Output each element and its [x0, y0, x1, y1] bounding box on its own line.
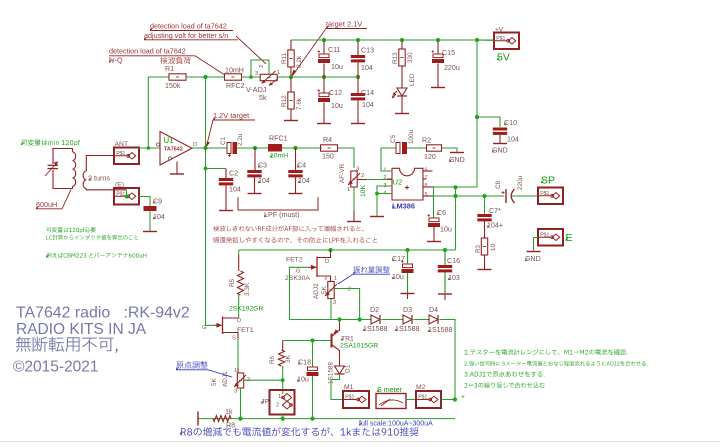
svg-text:600uH: 600uH [36, 200, 57, 209]
leader 600uH to coil [62, 190, 71, 209]
node junction C18 bottom [310, 417, 314, 421]
ground R3 [478, 269, 492, 271]
node junction C16 tap [443, 248, 447, 252]
svg-text:D1: D1 [345, 364, 352, 373]
ground C3 [248, 193, 262, 195]
svg-text:full scale:100uA~300uA: full scale:100uA~300uA [359, 421, 433, 428]
connector PJ1 E2 [538, 229, 563, 246]
title 無断転用不可 [16, 336, 118, 352]
wire pin8-pin5 bridge [433, 187, 435, 196]
wire C10 tap [477, 117, 500, 127]
svg-text:3: 3 [234, 389, 237, 395]
wire C12 to ground [323, 103, 325, 124]
svg-text:1k: 1k [225, 408, 233, 416]
resistor R8 [213, 416, 231, 422]
wire D3-D4 [414, 319, 430, 321]
wire R1 left [148, 76, 169, 78]
note 可変量は120pf必要 [46, 227, 95, 233]
svg-text:8: 8 [425, 183, 428, 189]
capacitor C3 [254, 148, 256, 170]
leader line to V-ADJ [236, 36, 266, 64]
svg-text:R11: R11 [281, 52, 288, 64]
svg-text:8.2k: 8.2k [296, 55, 303, 68]
wire AF-VR bottom to ground [353, 187, 355, 211]
svg-text:1: 1 [277, 70, 280, 76]
op-amp U2 LM386 [392, 168, 423, 200]
svg-text:RADIO KITS IN JA: RADIO KITS IN JA [16, 321, 147, 338]
wire R3 to ground [484, 255, 486, 269]
ground C12 [317, 123, 331, 125]
svg-text:1: 1 [347, 187, 350, 193]
wire C16 to ground [444, 273, 446, 294]
wire C9 to ground [149, 211, 151, 231]
ground bus left [197, 412, 199, 426]
note 検波しきれない line2 [213, 237, 377, 243]
svg-text:©2015-2021: ©2015-2021 [13, 359, 99, 376]
svg-text:O: O [193, 142, 197, 148]
svg-text:AF-VR: AF-VR [339, 163, 346, 183]
node junction ADJ1 bottom [238, 417, 242, 421]
inductor RFC1 [268, 144, 282, 152]
svg-text:D4: D4 [429, 306, 438, 314]
svg-text:3: 3 [324, 276, 327, 282]
svg-text:220u: 220u [517, 175, 524, 190]
svg-text:5V: 5V [497, 52, 510, 64]
svg-text:U2: U2 [393, 178, 403, 187]
svg-text:330: 330 [407, 52, 414, 63]
svg-text:1S1588: 1S1588 [395, 325, 420, 333]
svg-text:U1: U1 [164, 136, 174, 145]
svg-text:C9: C9 [153, 198, 162, 206]
note instruction 3 [464, 371, 544, 377]
node junction supply/zobel [453, 185, 457, 189]
svg-text:ADJ2: ADJ2 [313, 283, 320, 299]
wire E to C9 [139, 197, 151, 207]
wire C1 to RFC1 [237, 147, 268, 149]
wire C10 to ground [499, 135, 501, 143]
wire U1 output [192, 147, 206, 149]
capacitor C11 [323, 41, 325, 54]
LED LED1 [397, 88, 407, 96]
wire to +V connector [477, 39, 494, 42]
capacitor C16 [444, 250, 446, 265]
node junction C10 tap [475, 115, 479, 119]
node junction C7 tap [482, 194, 486, 198]
svg-text:3K: 3K [285, 354, 292, 363]
svg-text:C8: C8 [495, 180, 502, 189]
resistor R1 [169, 74, 186, 80]
wire RFC1 to R4 [282, 147, 322, 149]
svg-text:7.6k: 7.6k [296, 97, 303, 110]
svg-text:2: 2 [383, 175, 386, 181]
svg-text:adjusting volt for better s/n: adjusting volt for better s/n [144, 31, 228, 40]
svg-text:2: 2 [348, 287, 351, 293]
connector PJ1 SP [538, 188, 563, 205]
note instruction 2 [464, 361, 647, 366]
svg-text:3.3K: 3.3K [244, 282, 251, 296]
diode D1 [335, 366, 345, 374]
svg-text:C13: C13 [361, 47, 374, 55]
svg-text:150k: 150k [165, 82, 181, 90]
ground U2 input [370, 216, 384, 218]
svg-text:5: 5 [425, 192, 428, 198]
wire S meter to M2 [406, 399, 416, 401]
svg-text:+: + [461, 394, 465, 401]
svg-text:TA7642: TA7642 [164, 147, 183, 153]
ground LED [395, 113, 409, 115]
svg-text:G: G [202, 325, 207, 331]
capacitor C10 [493, 128, 507, 131]
node junction TR1 emitter [337, 317, 341, 321]
ground C4 [289, 193, 303, 195]
wire M2 to node [441, 399, 455, 401]
capacitor C1 [206, 147, 228, 149]
node junction V-ADJ/R11/R12 [289, 75, 293, 79]
wire meter supply rail [239, 249, 456, 251]
node junction M2 [453, 397, 457, 401]
svg-text:2SK30A: 2SK30A [285, 275, 310, 282]
ground AF-VR [347, 221, 361, 223]
wire C2 to ground [225, 186, 227, 211]
wire C3 to ground [254, 178, 256, 194]
svg-text:3: 3 [356, 167, 359, 173]
wire supply drop to U2 [456, 117, 478, 187]
capacitor C5 [396, 143, 400, 154]
svg-text:10: 10 [490, 244, 497, 251]
svg-text:R5: R5 [229, 278, 236, 287]
svg-text:1: 1 [334, 276, 337, 282]
wire zobel drop [455, 187, 457, 250]
node junction R13 top [400, 38, 404, 42]
svg-text:detection load of ta7642: detection load of ta7642 [150, 22, 227, 31]
wire U2 pin3 pin4 to ground [377, 186, 392, 216]
wire ADJ1 wiper [244, 379, 283, 381]
capacitor C12 [323, 77, 325, 93]
svg-text:TA7642 radio :RK-94v2: TA7642 radio :RK-94v2 [16, 305, 190, 322]
svg-text:2SK192GR: 2SK192GR [229, 306, 263, 313]
svg-text:FET2: FET2 [286, 257, 303, 264]
wire LED to ground [401, 96, 403, 113]
ground C15 [431, 87, 445, 89]
svg-text:C7*: C7* [489, 207, 501, 215]
leader 原点調整 [208, 370, 232, 377]
resistor R11 [288, 50, 294, 67]
capacitor C15 [437, 41, 439, 54]
svg-text:5K: 5K [211, 377, 218, 386]
op-amp U1 TA7642 [160, 132, 192, 166]
svg-text:R8: R8 [226, 422, 235, 430]
resistor R4 [321, 145, 338, 151]
svg-text:5k: 5k [259, 93, 267, 102]
svg-text:104: 104 [507, 136, 519, 144]
wire C18 to bus [312, 376, 314, 419]
wire +V rail [291, 39, 494, 41]
svg-text:1.2V target: 1.2V target [213, 111, 249, 120]
node junction C3 tap [253, 146, 257, 150]
ground R12 [284, 120, 298, 122]
svg-text:R3: R3 [475, 245, 482, 253]
U2 pin6 stub [423, 170, 433, 172]
svg-text:C3: C3 [258, 162, 267, 170]
wire E2 to ground [534, 238, 539, 252]
resistor R2 [427, 145, 442, 151]
svg-text:R4: R4 [323, 136, 332, 144]
wire U1 output to FET1 gate [206, 169, 215, 326]
wire C11 bottom [323, 64, 325, 78]
resistor R13 [401, 41, 403, 49]
svg-text:R12: R12 [281, 95, 288, 107]
svg-text:E: E [566, 232, 573, 244]
resistor R3 [481, 238, 487, 255]
wire C13 bottom [357, 63, 359, 78]
capacitor C8 [505, 189, 507, 203]
svg-text:G: G [296, 269, 301, 275]
svg-text:D: D [325, 259, 329, 265]
svg-text:C4: C4 [297, 162, 306, 170]
svg-text:104: 104 [229, 186, 241, 194]
svg-text:150: 150 [322, 153, 334, 161]
wire ADJ2 bottom [330, 299, 332, 320]
node junction FET2 drain [328, 248, 332, 252]
wire R12 to ground [290, 109, 292, 120]
svg-text:S meter: S meter [377, 385, 403, 394]
node junction +V drop [475, 38, 479, 42]
svg-text:C6: C6 [437, 209, 446, 217]
wire U2 pin1 to C5 [381, 148, 396, 171]
wire R2 to ground [442, 148, 458, 152]
node junction AGC [203, 75, 207, 79]
svg-text:10u: 10u [440, 226, 452, 234]
ground C2 [219, 210, 233, 212]
capacitor C18 [312, 341, 314, 368]
svg-text:detection load of ta7642: detection load of ta7642 [109, 47, 186, 56]
wire R6 to JP [282, 366, 284, 394]
ground C10 [493, 143, 507, 145]
wire ADJ1 bottom to bus [240, 388, 242, 419]
LPF bracket [238, 197, 318, 210]
svg-text:C2: C2 [229, 170, 238, 178]
resistor R12 [290, 77, 292, 92]
svg-text:D2: D2 [370, 306, 379, 314]
svg-text:2SA1015GR: 2SA1015GR [340, 343, 378, 350]
wire C6 to ground [433, 227, 435, 241]
capacitor C14 [357, 77, 359, 93]
svg-text:M2: M2 [416, 384, 426, 391]
window border bottom [0, 441, 720, 443]
svg-text:C11: C11 [328, 46, 341, 54]
wire C15 to ground [437, 64, 439, 88]
svg-text:C16: C16 [447, 257, 460, 265]
inductor RFC2 [225, 74, 242, 80]
wire C7 to R3 [484, 222, 486, 239]
resistor R6 [282, 341, 284, 351]
svg-text:LED: LED [409, 73, 416, 86]
ground C6 [427, 241, 441, 243]
note 検波しきれない line1 [213, 226, 363, 232]
svg-text:1: 1 [234, 368, 237, 374]
jumper JP [270, 390, 295, 415]
capacitor C6 [433, 196, 435, 218]
wire C4 to ground [295, 178, 297, 194]
wire RFC2 to V-ADJ [241, 76, 260, 78]
node junction JP bottom [281, 417, 285, 421]
svg-text:RFC1: RFC1 [269, 135, 288, 143]
wire TR1 base line [283, 340, 331, 342]
svg-text:C1: C1 [220, 136, 227, 145]
leader arrow to node [293, 29, 327, 76]
wire D1 to M1 [331, 374, 343, 400]
wire AF-VR wiper to U2 [358, 179, 367, 181]
wire supply drop [476, 40, 478, 117]
wire secondary bottom to E [86, 189, 126, 190]
capacitor C17 [407, 250, 409, 264]
wire R1 to U1 input [147, 77, 149, 148]
potentiometer AF-VR [351, 171, 357, 187]
note LC計算 [47, 235, 139, 240]
U2 left pin stubs [387, 170, 392, 172]
node junction pin3/4 [375, 192, 379, 196]
wire V rail drop to R11 [290, 40, 292, 50]
wire secondary top to ANT [86, 156, 114, 172]
U2 pin8 wire [423, 186, 434, 188]
node junction wiper loop [249, 75, 253, 79]
node junction U1 input [147, 146, 151, 150]
note 原点調整 [176, 361, 207, 368]
capacitor C4 [295, 148, 297, 170]
wire D4 to M2 drop [440, 320, 456, 400]
svg-text:S: S [232, 336, 236, 342]
node junction C11/C12 [322, 75, 326, 79]
svg-text:10K: 10K [360, 184, 367, 197]
svg-text:2.2u: 2.2u [237, 133, 244, 146]
capacitor C2 [225, 169, 227, 179]
svg-text:FET1: FET1 [237, 327, 254, 334]
svg-text:ADJ1: ADJ1 [222, 371, 229, 387]
svg-text:R6: R6 [269, 355, 276, 364]
svg-text:1: 1 [278, 394, 281, 400]
svg-text:target 2.1V: target 2.1V [326, 20, 362, 29]
wire U1 ground lead [176, 162, 178, 174]
node junction U1 output [203, 146, 207, 150]
transistor TR1 2SA1015GR [331, 334, 333, 348]
potentiometer V-ADJ [260, 74, 277, 80]
wire C2 tap [206, 148, 227, 169]
ground U1 [170, 173, 184, 175]
node junction C17 tap [405, 248, 409, 252]
node junction C2 tap [204, 167, 208, 171]
svg-text:120: 120 [424, 153, 436, 161]
wire C8 to SP [512, 195, 538, 197]
ground C14 [351, 123, 365, 125]
capacitor C7 [484, 196, 486, 214]
node junction C11 top [322, 38, 326, 42]
svg-text:1S1588: 1S1588 [363, 325, 388, 333]
wire FET2 gate [290, 267, 310, 319]
svg-text:220u: 220u [444, 64, 460, 72]
ground C9 [143, 231, 157, 233]
wire FET1 source to ADJ1 [237, 338, 239, 368]
note instruction repeat [464, 382, 544, 388]
node junction C13 top [356, 38, 360, 42]
node junction C15 top [436, 38, 440, 42]
wire R13 to LED [401, 66, 403, 88]
svg-text:3: 3 [255, 71, 258, 77]
svg-text:M1: M1 [344, 384, 354, 391]
svg-text:LM386: LM386 [392, 202, 415, 211]
svg-text:10u: 10u [331, 102, 343, 110]
svg-text:10u: 10u [331, 63, 343, 71]
U2 pin7 stub [423, 178, 427, 180]
inductor antenna coil 600uH [73, 152, 76, 186]
wire R5 top [238, 250, 240, 255]
svg-text:2: 2 [361, 173, 364, 179]
ground R2 [450, 152, 464, 154]
note 検波負荷 [160, 57, 190, 64]
wire R11 to node [290, 67, 292, 77]
wire ANT to U1 input [139, 147, 161, 149]
potentiometer ADJ2 [328, 282, 334, 299]
resistor R5 [238, 255, 240, 271]
svg-text:C5: C5 [390, 134, 397, 143]
svg-text:D: D [237, 318, 241, 324]
node junction C18 tap [310, 338, 314, 342]
node junction output column [453, 194, 457, 198]
capacitor C9 [144, 206, 157, 211]
svg-text:R1: R1 [165, 65, 174, 73]
wire C14 to ground [357, 101, 359, 124]
wire wiper loop [251, 60, 269, 77]
note 可変量はmin 120pf [21, 139, 80, 146]
svg-text:2: 2 [276, 403, 279, 409]
capacitor C13 [357, 41, 359, 55]
ground C16 [438, 293, 452, 295]
wire R1 right [186, 76, 225, 78]
svg-text:RFC2: RFC2 [226, 82, 245, 90]
svg-text:R13: R13 [392, 52, 399, 64]
wire ground bus [198, 418, 456, 420]
wire AGC drop to U1 output [205, 77, 207, 148]
svg-text:LPF (must): LPF (must) [264, 210, 300, 219]
svg-text:C15: C15 [442, 49, 455, 57]
note instruction 1 [464, 349, 627, 355]
ground C17 [401, 293, 415, 295]
svg-text:10mH: 10mH [270, 153, 288, 160]
svg-text:104: 104 [361, 64, 373, 72]
svg-text:R2: R2 [422, 137, 431, 145]
svg-text:100u: 100u [408, 129, 415, 144]
variable capacitor tuning [53, 149, 73, 165]
node junction ADJ2 wiper [358, 317, 362, 321]
node junction E pin [125, 195, 129, 199]
svg-text:C14: C14 [361, 89, 374, 97]
wire D2-D3 [382, 319, 404, 321]
wire JP pin2 to bus [282, 415, 284, 419]
note 例えばCBM223 [46, 253, 146, 258]
transistor FET1 2SK192GR [222, 317, 224, 335]
wire C5 to R2 [407, 147, 427, 149]
potentiometer ADJ1 [237, 368, 239, 373]
node junction wiper join [281, 378, 285, 382]
svg-text:1S1588: 1S1588 [428, 326, 453, 334]
wire detector bias row [241, 76, 260, 78]
node junction C13/C14 [356, 75, 360, 79]
leader line to RFC2 [195, 56, 224, 75]
wire R4 to AF-VR [338, 148, 355, 168]
wire R5 to FET1 drain [238, 295, 240, 318]
svg-text:C12: C12 [329, 89, 342, 97]
svg-text:10mH: 10mH [225, 67, 244, 75]
note R8の増減 [181, 427, 419, 436]
